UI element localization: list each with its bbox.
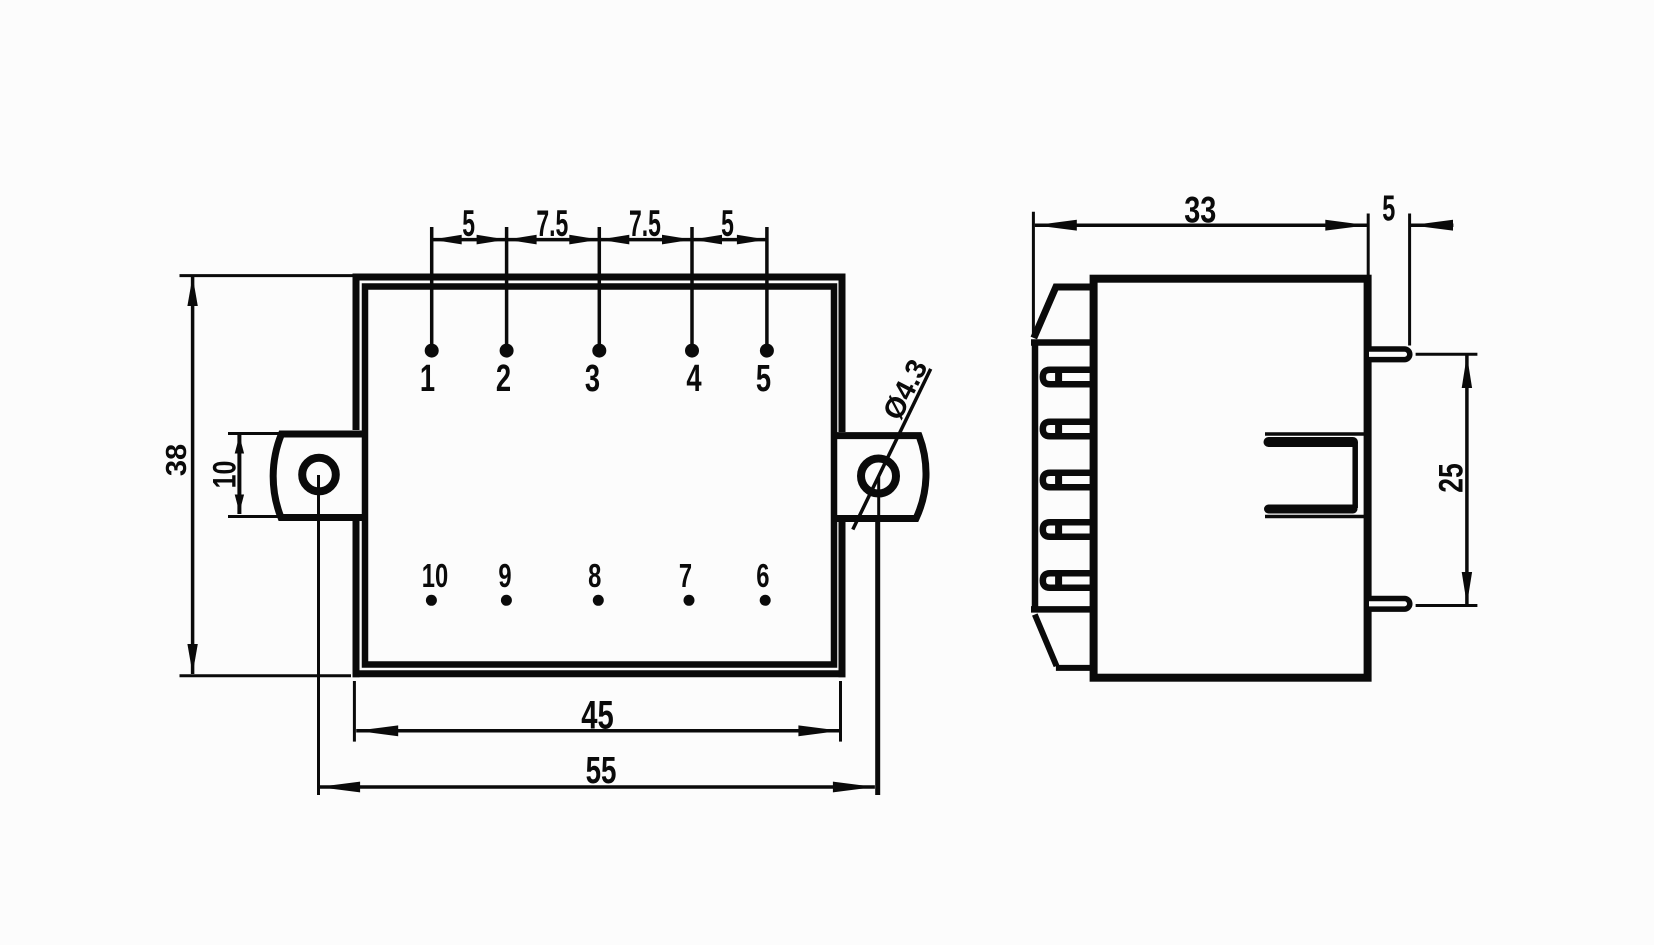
right flange hole bbox=[861, 459, 896, 494]
dimension 10 arrows bbox=[235, 436, 244, 513]
hole diameter leader line bbox=[853, 369, 931, 530]
solder lug 3 bbox=[1043, 473, 1094, 487]
dimension 10 line bbox=[237, 434, 241, 514]
svg-text:5: 5 bbox=[721, 202, 734, 244]
svg-text:5: 5 bbox=[756, 358, 771, 400]
dimension 38 line bbox=[191, 276, 195, 674]
side body rectangle bbox=[1094, 279, 1368, 678]
dimension 55 extension right bbox=[875, 517, 878, 795]
winding slot upper thin line bbox=[1265, 432, 1366, 436]
dimension 33 arrows bbox=[1035, 220, 1368, 231]
dimension 45 extension right bbox=[839, 681, 842, 742]
body outer left edge upper segment bbox=[353, 274, 360, 431]
bottom core trapezoid slant bbox=[1035, 615, 1057, 667]
pin 10 dot bbox=[426, 595, 437, 606]
pin 5 stem bbox=[765, 227, 769, 345]
bobbin flange left edge bbox=[1032, 340, 1039, 613]
body outer top edge bbox=[353, 274, 846, 281]
svg-text:7.5: 7.5 bbox=[536, 202, 568, 244]
dimension 45 line bbox=[356, 729, 840, 733]
svg-text:1: 1 bbox=[420, 358, 435, 400]
body outer right edge lower segment bbox=[839, 522, 846, 677]
dimension 38 extension bottom bbox=[180, 674, 352, 677]
top pitch dimension line bbox=[432, 238, 767, 242]
dimension 38 arrows bbox=[187, 276, 197, 674]
svg-text:7.5: 7.5 bbox=[629, 202, 661, 244]
pin 8 dot bbox=[593, 595, 604, 606]
svg-text:55: 55 bbox=[586, 750, 617, 792]
body outer right edge upper segment bbox=[839, 274, 846, 433]
svg-text:25: 25 bbox=[1432, 463, 1470, 493]
svg-text:7: 7 bbox=[679, 558, 692, 595]
pin 3 stem bbox=[598, 227, 602, 345]
solder lug 4 bbox=[1043, 522, 1094, 536]
solder lug 5 bbox=[1043, 573, 1094, 587]
side pin bottom bbox=[1369, 599, 1410, 610]
pin 5 dot bbox=[760, 344, 774, 358]
pin 3 dot bbox=[592, 344, 606, 358]
dimension 55 line bbox=[318, 785, 875, 789]
right mounting flange outline bbox=[836, 436, 926, 519]
svg-text:6: 6 bbox=[756, 558, 769, 595]
dimension 45 arrows bbox=[356, 725, 840, 736]
pin 1 dot bbox=[425, 344, 439, 358]
dimension 5 extension bbox=[1408, 214, 1411, 346]
solder lug 1 bbox=[1043, 370, 1094, 384]
bottom core trapezoid bottom edge bbox=[1056, 665, 1094, 671]
dimension 10 extension bottom bbox=[228, 515, 283, 518]
bobbin flange bottom edge bbox=[1031, 606, 1094, 613]
dimension 25 line bbox=[1465, 355, 1469, 605]
pin 9 dot bbox=[501, 595, 512, 606]
dimension 55 arrows bbox=[318, 782, 875, 793]
dimension 33 line bbox=[1035, 223, 1368, 227]
svg-text:10: 10 bbox=[422, 558, 448, 595]
dimension 10 extension top bbox=[228, 432, 282, 435]
pin 4 dot bbox=[685, 344, 699, 358]
svg-text:3: 3 bbox=[585, 358, 600, 400]
dimension 5 arrow bbox=[1411, 220, 1453, 231]
left hole centre line bbox=[317, 475, 320, 795]
svg-text:5: 5 bbox=[1382, 190, 1395, 229]
pin 2 dot bbox=[500, 344, 514, 358]
body inner rectangle bbox=[365, 287, 834, 665]
body right edge extension bbox=[1367, 214, 1370, 276]
svg-text:45: 45 bbox=[581, 693, 613, 738]
solder lug 2 bbox=[1043, 422, 1094, 436]
dimension 25 extension bottom bbox=[1416, 604, 1478, 607]
side pin top bbox=[1369, 349, 1410, 360]
winding slot lower bar bbox=[1269, 505, 1354, 514]
dimension 45 extension left bbox=[353, 681, 356, 742]
svg-text:5: 5 bbox=[462, 202, 475, 244]
right hole centre line bbox=[877, 477, 880, 795]
pin 6 dot bbox=[760, 595, 771, 606]
svg-text:4: 4 bbox=[686, 358, 702, 400]
pin 7 dot bbox=[684, 595, 695, 606]
top core trapezoid bbox=[1034, 287, 1094, 338]
dimension 5 tail bbox=[1411, 223, 1453, 227]
svg-text:8: 8 bbox=[588, 558, 601, 595]
body outer left edge lower segment bbox=[353, 521, 360, 677]
pin 4 stem bbox=[690, 227, 694, 345]
left mounting flange outline bbox=[273, 434, 362, 518]
svg-text:38: 38 bbox=[161, 444, 193, 476]
svg-text:9: 9 bbox=[498, 558, 511, 595]
svg-text:10: 10 bbox=[207, 461, 243, 489]
pin 2 stem bbox=[505, 227, 509, 345]
bobbin flange top edge bbox=[1031, 339, 1094, 346]
left flange hole bbox=[302, 458, 336, 492]
winding slot upper bar bbox=[1269, 437, 1354, 447]
svg-text:33: 33 bbox=[1184, 190, 1216, 231]
pin 1 stem bbox=[430, 227, 434, 345]
top dim arrows bbox=[432, 235, 767, 245]
winding slot inner vertical bbox=[1352, 442, 1358, 508]
dimension 38 extension top bbox=[180, 274, 357, 277]
left mounting flange fill bbox=[272, 430, 361, 521]
dimension 25 extension top bbox=[1416, 353, 1478, 356]
body outer bottom edge bbox=[353, 670, 846, 677]
dimension 33 extension left bbox=[1032, 212, 1035, 336]
winding slot lower thin line bbox=[1265, 515, 1366, 519]
svg-text:2: 2 bbox=[496, 358, 511, 400]
right mounting flange fill bbox=[838, 432, 928, 522]
dimension 25 arrows bbox=[1462, 355, 1472, 604]
